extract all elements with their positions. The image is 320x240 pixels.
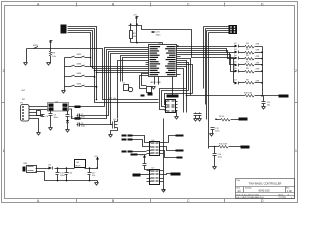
svg-text:+5V: +5V [94,156,98,158]
wire bus to IC long horizontals [91,67,149,73]
svg-text:Drawn by:: Drawn by: [279,196,287,199]
LED bank [186,43,289,109]
resistor R3 pulldown [49,49,56,64]
svg-text:100n: 100n [81,117,85,119]
switch matrix row 3 [65,75,95,77]
zone tick top [77,3,225,7]
power jack CN1 [23,163,37,172]
LED D7 row [234,80,263,85]
svg-text:Title: Title [236,179,240,182]
wire serial fan [32,107,48,133]
junction dots reset [130,23,138,43]
ground matrix [62,91,66,94]
svg-text:CN1: CN1 [23,163,28,165]
svg-text:10n: 10n [267,104,270,106]
ground C10 [213,167,217,170]
svg-text:100n: 100n [54,117,58,119]
svg-text:1: 1 [291,197,292,199]
svg-text:1M: 1M [133,36,136,38]
wire +5V rail top [129,26,234,83]
svg-text:1: 1 [3,149,5,153]
wire J5 drop lines [204,27,209,149]
ground C4 fan [37,133,41,136]
+5V stub above [50,41,53,49]
junction y146 [214,146,216,148]
optocoupler U3 box [48,103,69,112]
ground C6 [198,119,202,122]
wire matrix left bus [64,58,66,91]
svg-text:AVCC GND: AVCC GND [151,81,162,84]
svg-text:SW1: SW1 [33,45,39,47]
svg-text:100n: 100n [215,130,219,132]
zone tick right [295,102,298,104]
ground C11 [262,107,266,110]
svg-text:2: 2 [295,69,297,73]
title block [236,179,295,199]
ground U5 [175,111,179,120]
wire U1 right pins to LED bus [177,47,234,72]
op IC U1 body [149,45,177,77]
net label right row1 [176,135,184,137]
chain cap C9 under opto [49,111,58,128]
svg-text:R17 10k: R17 10k [109,98,116,100]
wire osc loop outer [160,89,187,110]
ground C9 [49,128,53,131]
wire U1 left pins bundle down [118,56,149,119]
wire J1 bus [69,27,159,103]
wire U7 right [164,174,171,182]
inductor row symbol [221,119,231,122]
LED D4 row [234,55,263,60]
diode D1 [49,164,53,169]
wire U1 bottom stubs [155,77,159,85]
zone tick left [2,102,5,104]
ground C12 [210,134,214,137]
capacitor C8 [77,123,86,128]
svg-text:Number: Number [245,186,252,189]
svg-text:SW2: SW2 [77,54,83,56]
net label GP1 [75,107,76,108]
svg-text:47u: 47u [92,175,95,177]
capacitor C16 [65,169,73,181]
svg-text:100n: 100n [218,157,222,159]
ground below R3 [47,63,51,66]
connector P1 serial [21,102,32,121]
capacitor C13 [152,32,162,37]
crystal X1 box [147,87,153,96]
switch matrix row 4 [65,85,97,87]
zone tick bottom [77,199,225,203]
capacitor C5 [194,113,198,119]
junction dots power [57,167,98,181]
component X2 small [37,111,41,116]
ground power rail [95,181,99,186]
net label RXD [75,106,81,109]
capacitor C10 [213,147,223,167]
wire osc loop inner [165,94,193,105]
junction dots switch rows [94,76,98,101]
svg-text:47R: 47R [256,62,260,64]
LED D2 row [234,43,263,48]
transistor Q1 [111,119,118,135]
wire ground rail [36,172,98,181]
wire U1 right pins down to osc [177,59,193,96]
net label right row3 [177,157,183,159]
row TXD right: wire [217,119,239,121]
svg-text:+5V: +5V [133,15,137,17]
optocoupler U3 pads [49,104,68,111]
svg-text:47R: 47R [256,80,260,82]
wire L to label row [209,146,241,148]
net label single row4 [131,154,138,156]
wire U1 right lower pins [173,67,187,113]
resistor small row [219,146,229,149]
junction dots LED bus [261,51,263,96]
wire power rail [36,168,98,170]
net label small left of X1 [141,95,145,97]
net label pair row3 [122,151,133,153]
svg-text:2: 2 [3,69,5,73]
net label right row2 [176,150,184,152]
capacitor C7 [77,114,86,119]
wire labels to U6 [133,136,147,155]
chain diode D8 under opto [66,111,74,130]
net label pair row1 [122,135,133,137]
IC U1 pin name text left column [150,46,161,75]
wire reset horizontal [131,43,163,45]
svg-text:100n: 100n [81,126,85,128]
svg-text:78L05: 78L05 [75,165,81,167]
svg-text:9241-100: 9241-100 [259,189,271,193]
connector J5 top right [204,25,238,34]
svg-text:1.00: 1.00 [287,190,292,193]
wire U6 right [164,136,177,158]
capacitor C17 [88,169,97,181]
net label TXD [75,117,81,120]
wire U7 left [141,174,147,176]
LED D5 row [234,62,263,67]
resistor R1 pull-up [130,26,137,43]
svg-text:R10 10R: R10 10R [219,144,227,146]
capacitor C15 [56,169,65,181]
wire long input line [27,49,159,100]
svg-text:R2 1k: R2 1k [219,116,224,118]
IC U1 pin name text right column [165,46,176,75]
+5V U6 [144,158,146,161]
svg-text:R18 10R: R18 10R [244,93,252,95]
net label U7 left [133,174,141,177]
svg-text:47R: 47R [256,56,260,58]
wire opto out [69,107,75,119]
connector J1 body [61,25,69,34]
junction dot U1 pin [177,45,179,47]
net label row y119 [239,118,248,121]
switch SW1 [34,47,39,49]
sheet inner border [5,6,295,199]
IC U6 body [147,140,164,155]
capacitor C4 [41,115,49,118]
net label U7 right [171,173,181,176]
svg-text:SW3: SW3 [77,64,83,66]
sheet outer border [2,2,298,203]
svg-text:47R: 47R [256,69,260,71]
svg-text:100n: 100n [156,34,162,36]
resistor R18 row [186,93,279,97]
ground U1 bottom [152,87,156,90]
+5V power out [97,160,99,169]
junction y119 [215,118,217,120]
svg-text:100u: 100u [60,175,64,177]
svg-text:47R: 47R [256,44,260,46]
svg-text:SW5: SW5 [77,84,83,86]
ground U7 [162,190,166,193]
ground left of SW1 [24,49,28,66]
svg-text:TINY-BASIC CONTROLLER: TINY-BASIC CONTROLLER [249,181,282,185]
switch matrix row 1 [65,56,91,58]
ground D8 [66,130,70,133]
ground C5 [194,119,198,122]
svg-text:Date: 16-JUL-2005 17:23:42: Date: 16-JUL-2005 17:23:42 [236,193,259,196]
net label RESET [279,95,289,98]
wire vertical drop U7 [163,119,165,190]
svg-text:1: 1 [295,149,297,153]
svg-text:File: C:\AVR\TINYBAS\MAIN.SCH: File: C:\AVR\TINYBAS\MAIN.SCH [236,196,264,199]
net label row y146 [241,146,250,149]
svg-text:47R: 47R [256,50,260,52]
junction dot drop [163,189,165,191]
IC U7 body [147,167,164,184]
capacitor C11 [262,96,272,107]
net label FUNCTION [167,95,179,98]
capacitor C12 [211,128,220,134]
svg-text:SW4: SW4 [77,73,83,75]
net label pair row2 [122,139,133,141]
ground Q1 [109,135,113,138]
wire osc loop mid [162,91,189,107]
+5V top center [136,17,139,43]
LED D6 row [234,68,263,73]
oscillator Y1 [123,82,133,91]
switch matrix row 2 [65,65,93,67]
wire LED collect bus [262,47,264,96]
capacitor C6 [198,113,202,119]
regulator U4 [75,160,86,168]
wire U1 left pins to lower bus [81,48,149,125]
LED D3 row [234,49,263,54]
capacitor C14 [143,161,150,170]
IC U5 body [165,100,178,113]
